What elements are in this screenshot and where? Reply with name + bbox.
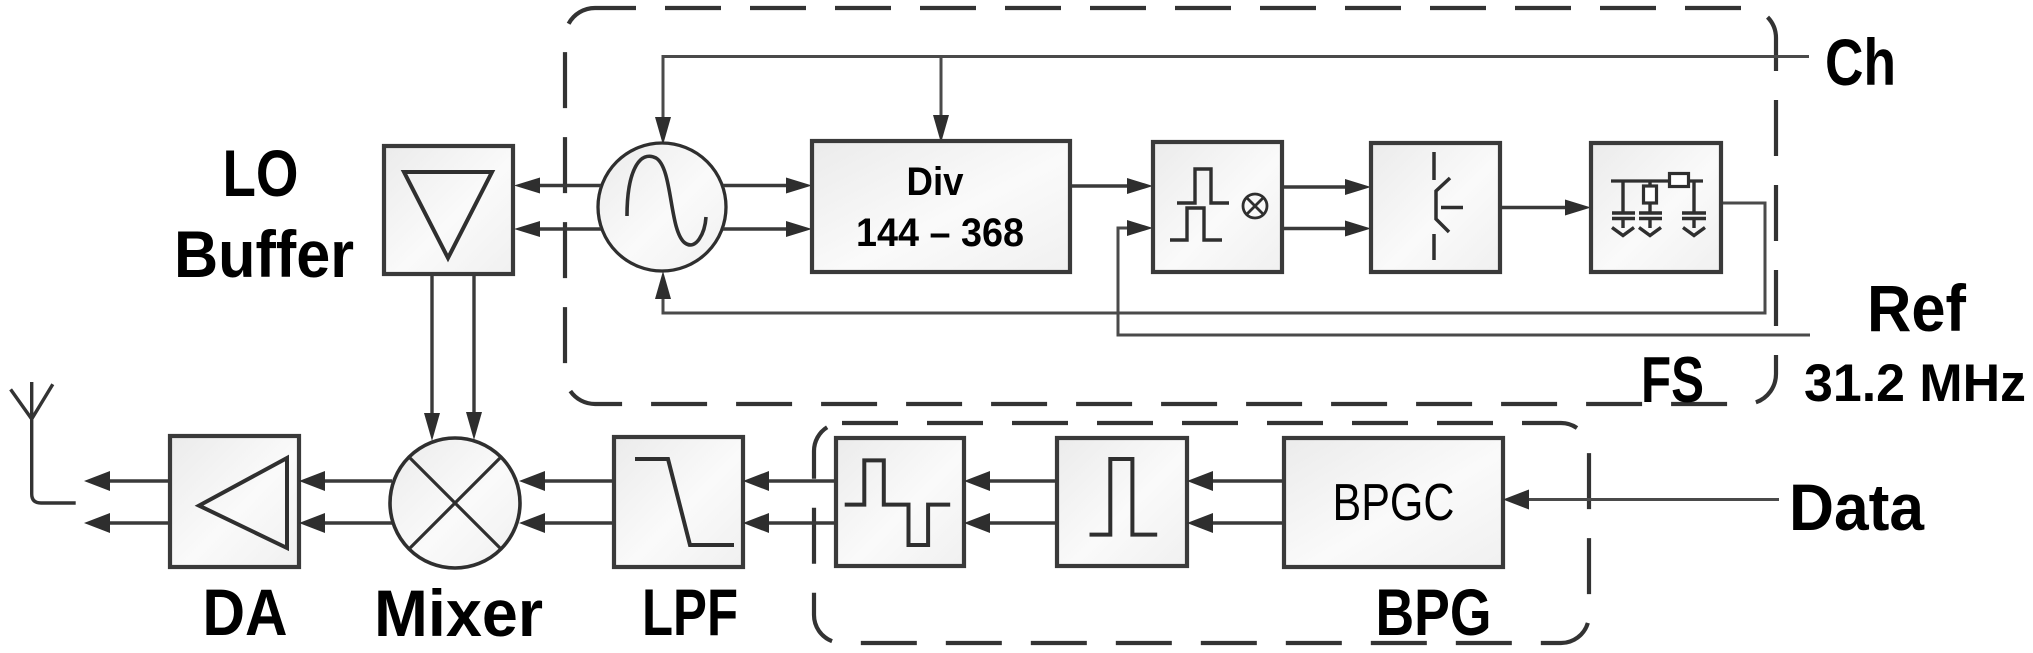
wire Ref line [1118,228,1810,335]
LPF response icon [635,459,734,545]
wire LPF to mixer [543,481,614,523]
node feedback arrow into oscillator bottom [655,271,671,299]
wire pulse shaper to LPF [767,481,836,523]
svg-text:LPF: LPF [642,575,738,649]
loop filter rail [1611,179,1703,182]
pulse shaper block bipolar [836,438,964,566]
charge pump block [1371,143,1500,272]
divider block Div 144-368 [812,141,1070,272]
node arrows into LPF right [743,471,769,491]
wire DA to antenna [108,481,170,523]
PFD pulse icon upper [1177,169,1229,203]
svg-text:LO: LO [223,136,299,210]
svg-text:Mixer: Mixer [374,576,543,650]
bipolar pulse icon [845,460,951,545]
svg-text:Buffer: Buffer [174,217,354,291]
svg-text:Ch: Ch [1825,25,1896,99]
LPF block [614,437,743,567]
node arrows into charge pump [1345,179,1371,195]
wire divider to PFD [1070,184,1131,187]
PFD multiplier circle [1243,194,1267,218]
wire PFD to charge pump [1282,187,1349,229]
BPGC block [1284,438,1503,567]
node arrow into BPGC [1503,490,1529,510]
node arrow into loop filter [1565,200,1591,216]
node arrows into PFD [1127,178,1153,194]
loop filter block [1591,143,1721,272]
node Ch arrow into oscillator [655,117,671,145]
wire osc to divider [723,186,790,230]
charge pump switch icon [1434,152,1463,260]
oscillator VCO [598,143,726,271]
svg-text:Ref: Ref [1867,271,1967,345]
loop filter branch 3 [1682,181,1706,236]
svg-text:31.2 MHz: 31.2 MHz [1804,354,2026,413]
node arrows to antenna [84,471,110,491]
BPG dashed box [814,423,1589,643]
loop filter branch 2 [1639,181,1662,236]
DA triangle [199,458,287,548]
mixer circle [390,438,520,568]
LO buffer block [384,146,513,274]
wire loop-filter to oscillator feedback [663,203,1765,313]
wire mixer to DA [323,481,392,523]
single pulse icon [1090,459,1158,535]
wire osc to buffer [536,186,601,230]
svg-text:FS: FS [1641,343,1704,416]
pulse block single [1057,438,1187,566]
node Ch arrow into divider [933,115,949,143]
svg-text:Data: Data [1789,470,1925,544]
oscillator sine symbol [627,156,706,245]
node arrows into mixer right [519,471,545,491]
loop filter series resistor [1670,174,1689,187]
node arrows into pulse1 right [964,471,990,491]
wire pulse2 to pulse1 [988,481,1057,523]
node arrows into buffer [514,178,540,194]
LO buffer triangle [404,172,492,258]
node arrows into mixer top [424,413,440,441]
wire buffer to mixer [432,274,474,416]
node arrows into pulse2 right [1187,471,1213,491]
svg-text:Div: Div [907,160,965,204]
svg-text:DA: DA [203,575,288,649]
node arrows into DA [299,471,325,491]
wire charge pump to loop filter [1500,206,1569,209]
wire Data line [1527,498,1779,501]
DA block [170,436,299,567]
svg-text:144 – 368: 144 – 368 [856,211,1024,255]
loop filter branch 1 [1612,181,1635,236]
wire Ch line [663,57,1809,123]
node arrows into divider [786,178,812,194]
svg-text:BPGC: BPGC [1333,474,1455,532]
PFD phase detector block [1153,142,1282,272]
PFD pulse icon lower [1170,208,1222,240]
antenna [11,382,76,503]
svg-text:BPG: BPG [1376,575,1492,649]
wire BPGC to pulse2 [1211,481,1284,523]
mixer X [409,457,501,549]
FS dashed box [565,8,1776,404]
